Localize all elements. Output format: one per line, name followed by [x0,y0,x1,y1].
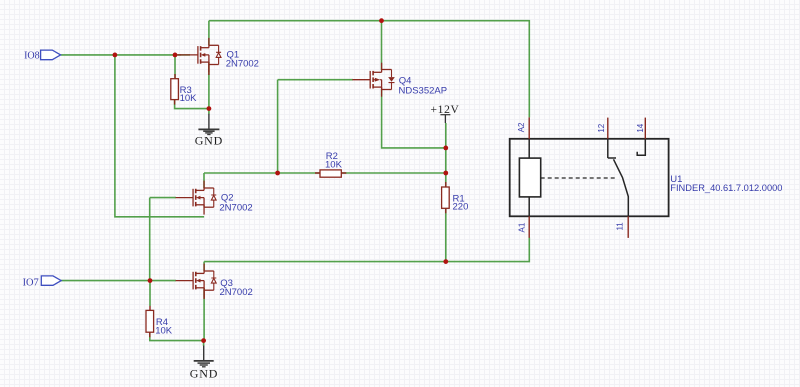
svg-text:220: 220 [453,201,469,212]
svg-text:A2: A2 [517,122,526,132]
svg-text:14: 14 [636,123,645,132]
svg-text:2N7002: 2N7002 [226,59,259,70]
svg-text:GND: GND [190,366,218,380]
svg-text:2N7002: 2N7002 [219,202,252,213]
svg-text:IO7: IO7 [23,277,39,288]
svg-text:IO8: IO8 [24,51,40,62]
svg-text:10K: 10K [325,159,343,170]
svg-text:11: 11 [616,222,625,231]
svg-text:NDS352AP: NDS352AP [399,86,448,97]
svg-text:12: 12 [597,123,606,132]
svg-text:10K: 10K [155,326,173,337]
svg-text:2N7002: 2N7002 [220,287,253,298]
svg-text:10K: 10K [180,93,198,104]
svg-text:A1: A1 [517,222,526,232]
svg-text:GND: GND [195,134,223,148]
svg-text:FINDER_40.61.7.012.0000: FINDER_40.61.7.012.0000 [670,183,782,193]
